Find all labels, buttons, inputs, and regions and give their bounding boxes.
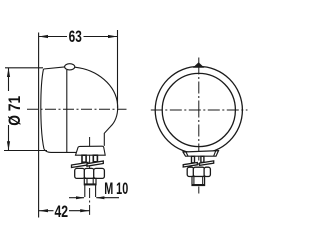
dimension 42: dimension line	[39, 210, 54, 212]
front view: foot band right bevel	[214, 151, 216, 156]
dimension M10: left leader with arrow	[69, 197, 84, 199]
svg-text:42: 42	[55, 202, 69, 221]
side view: lamp center line (horizontal dash-dot)	[27, 108, 127, 110]
dimension M10: right leader with arrow	[96, 197, 119, 199]
front view: spring washer right leaf	[200, 161, 214, 166]
side view: stud upper block	[84, 178, 96, 184]
front view: inner lens circle	[162, 73, 235, 146]
side view: housing top edge	[44, 67, 65, 69]
front view: mounting foot band	[183, 151, 219, 157]
front view: spring washer left leaf	[183, 163, 197, 168]
dimension Ø71: top arrowhead	[7, 68, 10, 77]
side view: housing dome outline	[75, 67, 118, 146]
side view: spring washer left leaf	[72, 162, 89, 167]
svg-text:M 10: M 10	[104, 179, 128, 198]
side view: stud block thread shade lines	[86, 178, 88, 183]
side view: lens face arc	[41, 69, 44, 149]
dimension 42: right arrowhead	[80, 209, 89, 212]
dimension 63: left extension line (shared with 42 dim)	[38, 33, 40, 218]
front view: outer rim circle	[155, 66, 242, 153]
side view: top cap bump	[65, 64, 75, 70]
dimension 63: right arrowhead	[108, 35, 118, 38]
front view: threaded stud	[192, 177, 205, 186]
dimension Ø71: bottom extension line	[4, 150, 47, 152]
side view: hex nut	[75, 168, 85, 178]
side view: stud posts between foot and washer	[82, 155, 86, 162]
dimension Ø71: bottom arrowhead	[7, 141, 10, 150]
side view: mounting foot	[76, 146, 106, 155]
side view: hex nut facet cell 3	[94, 168, 105, 178]
side view: bezel seam line	[66, 70, 68, 153]
side view: hex nut facet cell 2	[84, 168, 94, 178]
dimension 63: left arrowhead	[39, 35, 48, 38]
side view: threaded stud lines	[84, 185, 86, 197]
front view: stud posts between band and washer	[192, 156, 195, 163]
front view: hex nut facet cell 3	[204, 167, 210, 176]
front view: stud thread core lines	[193, 177, 195, 185]
dimension 42: left arrowhead	[39, 209, 48, 212]
front view: hex nut facet cell 2	[193, 167, 204, 176]
dimension 63: right extension line	[117, 30, 119, 108]
front view: vertical center line	[198, 58, 200, 194]
front view: foot band left bevel	[186, 152, 188, 156]
side view: stud center line (vertical dash-dot)	[89, 137, 91, 215]
front view: top orientation triangle	[193, 62, 205, 67]
front view: hex nut	[187, 167, 194, 176]
svg-text:63: 63	[69, 27, 82, 46]
svg-text:Ø 71: Ø 71	[5, 96, 24, 126]
side view: spring washer right leaf	[87, 161, 103, 166]
dimension Ø71: top extension line	[5, 67, 43, 69]
front view: stud end chamfer band	[192, 184, 205, 186]
front view: horizontal center line	[151, 109, 248, 111]
dimension Ø71: vertical dimension line	[8, 68, 10, 91]
side view: stud upper block bottom shade	[84, 183, 96, 185]
dimension 63: dimension line	[39, 36, 67, 38]
side view: lens bottom edge	[44, 149, 76, 152]
